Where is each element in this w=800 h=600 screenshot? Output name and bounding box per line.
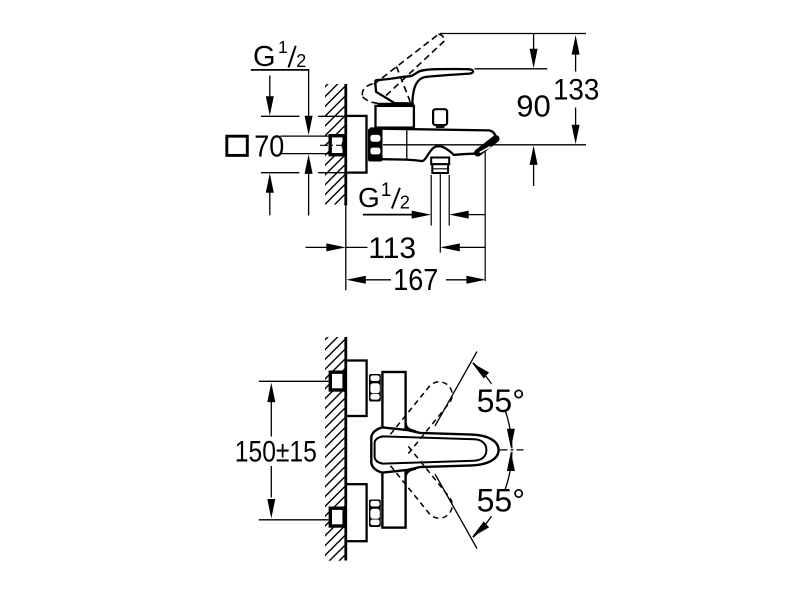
svg-text:167: 167 [393,263,438,297]
svg-text:70: 70 [254,129,284,164]
svg-text:150±15: 150±15 [235,435,317,468]
svg-text:G: G [358,182,380,213]
svg-text:55°: 55° [477,383,525,419]
svg-text:90: 90 [516,89,550,124]
svg-text:1: 1 [278,37,288,57]
svg-text:133: 133 [553,74,600,107]
svg-text:2: 2 [296,51,306,71]
svg-text:55°: 55° [477,483,525,519]
svg-text:G: G [253,41,276,73]
svg-text:2: 2 [400,193,410,213]
svg-text:113: 113 [368,232,416,265]
svg-text:1: 1 [381,180,392,201]
